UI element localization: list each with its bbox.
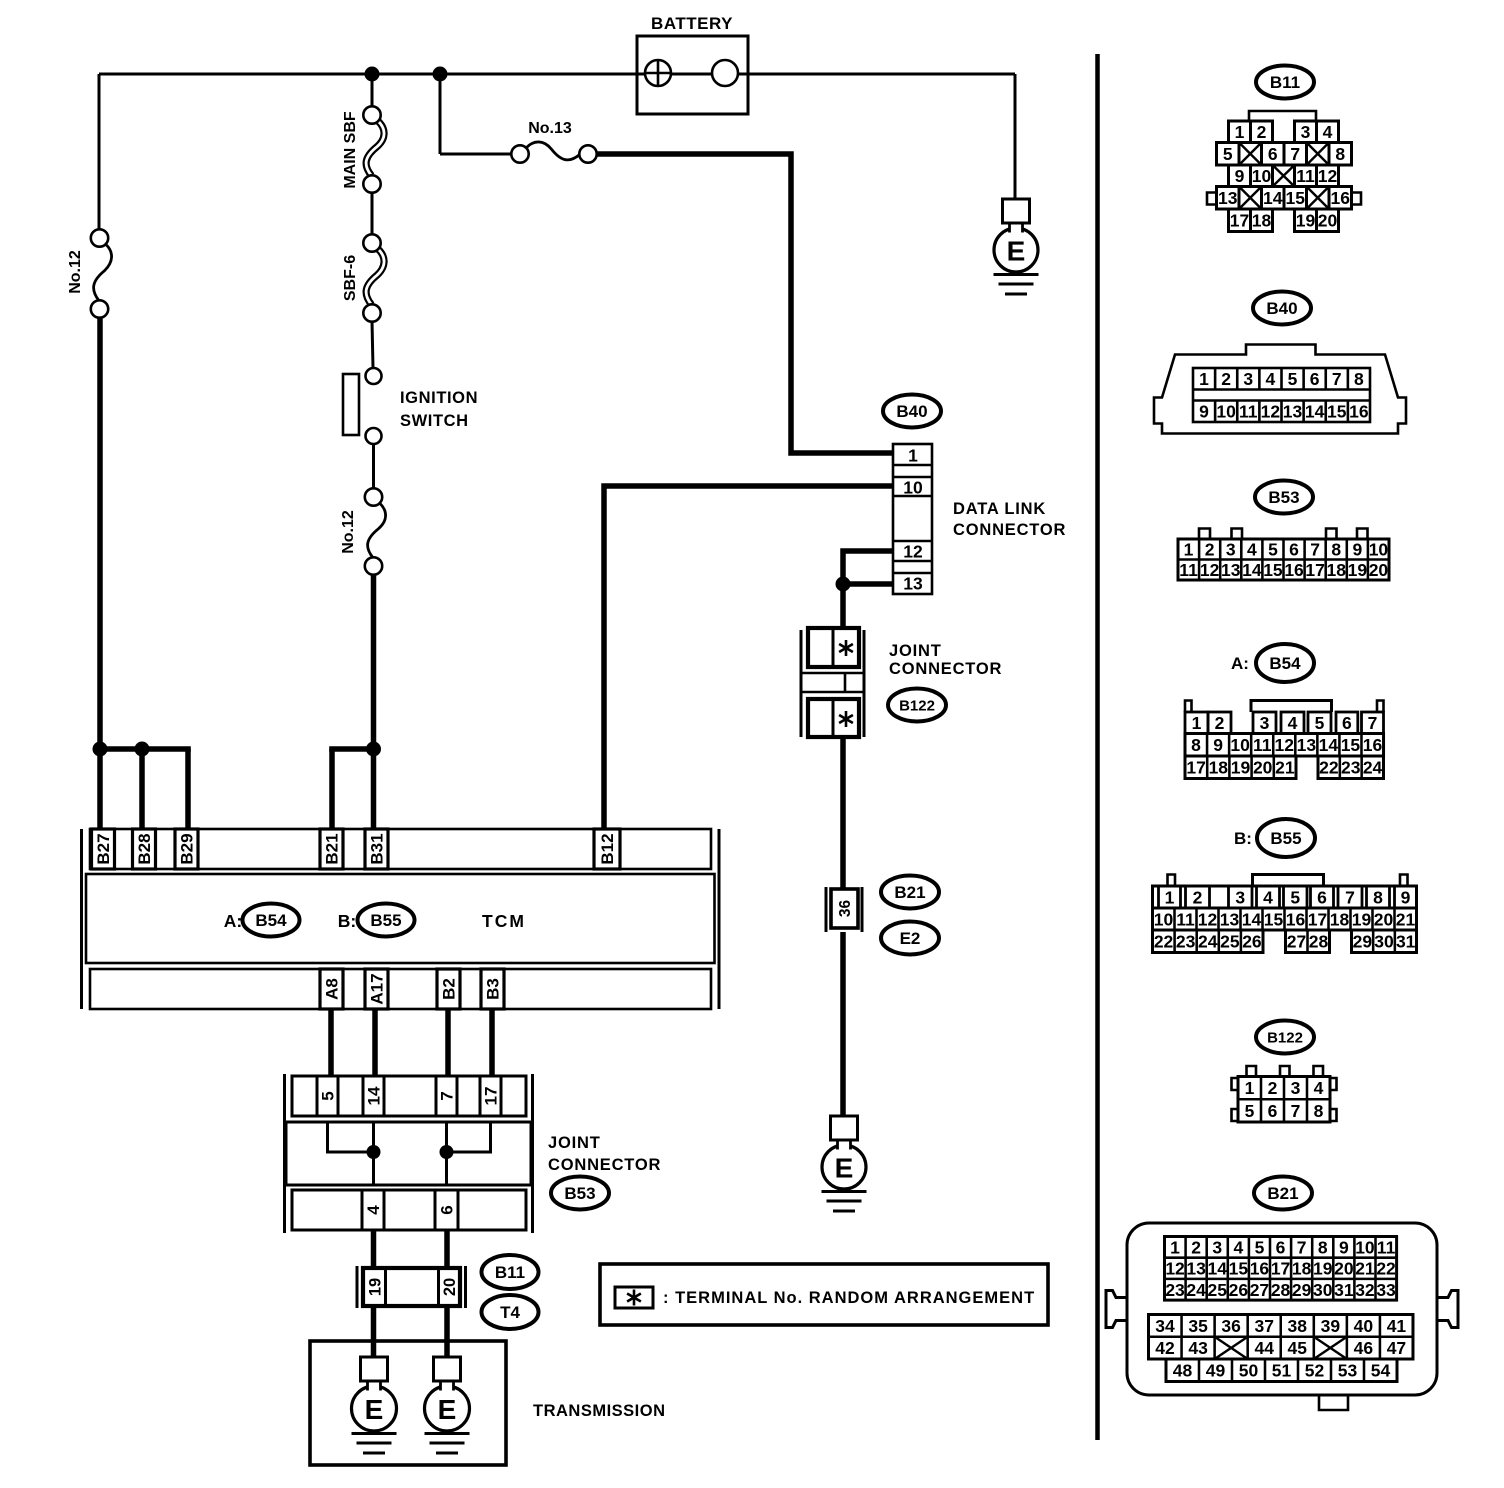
B53 pin 11: [1179, 560, 1198, 580]
joint connector B53 end bar right: [531, 1074, 534, 1233]
B55 pin 10: [1154, 909, 1174, 929]
svg-text:8: 8: [1318, 1237, 1328, 1257]
junction dot pins 12/13: [836, 577, 851, 592]
svg-text:B122: B122: [899, 697, 935, 714]
wire bus branch to fuse No.13: [440, 74, 512, 154]
B53 pin 3: [1226, 540, 1236, 560]
junction dot 5/14: [367, 1145, 381, 1159]
svg-text:20: 20: [441, 1278, 459, 1296]
svg-text:14: 14: [1305, 401, 1325, 421]
wire junction to joint connector B122: [840, 584, 846, 630]
TCM body: [86, 874, 715, 963]
B21 pin 41: [1387, 1316, 1407, 1336]
label No.12 (ignition feed fuse): [340, 510, 357, 554]
svg-text:E: E: [365, 1394, 384, 1425]
B21 pin 34: [1155, 1316, 1175, 1336]
svg-text:4: 4: [1233, 1237, 1243, 1257]
B55 pin 24: [1198, 932, 1218, 952]
svg-text:15: 15: [1327, 401, 1347, 421]
svg-text:T4: T4: [500, 1303, 520, 1322]
svg-text:13: 13: [1186, 1259, 1206, 1279]
svg-text:17: 17: [1305, 560, 1324, 580]
svg-text:B:: B:: [338, 911, 356, 931]
svg-text:34: 34: [1155, 1316, 1175, 1336]
connector B53 oval (pinout): [1255, 481, 1313, 514]
svg-text:40: 40: [1354, 1316, 1374, 1336]
B21 pin 12: [1165, 1259, 1185, 1279]
wire SBF-6 to ignition switch: [372, 321, 373, 368]
svg-text:20: 20: [1369, 560, 1389, 580]
B21 pin 38: [1288, 1316, 1308, 1336]
svg-text:4: 4: [364, 1205, 383, 1215]
B21 grid: [1165, 1237, 1397, 1301]
TCM pin A8: [320, 969, 343, 1009]
B53 pin 8: [1331, 540, 1341, 560]
svg-text:36: 36: [837, 900, 854, 918]
B40 pin 13: [1283, 401, 1303, 421]
connector B55 oval label (TCM B): [358, 904, 415, 937]
svg-text:2: 2: [1257, 122, 1267, 142]
svg-text:14: 14: [1319, 735, 1339, 755]
wire TCM A8 to joint connector pin 5: [328, 1009, 334, 1076]
pin 10 of B40: [903, 477, 923, 497]
svg-text:10: 10: [1216, 401, 1236, 421]
label B: (pinout): [1234, 829, 1252, 848]
B21 pin 54: [1371, 1361, 1391, 1381]
TCM pin B21: [320, 829, 343, 869]
svg-text:7: 7: [438, 1091, 457, 1100]
svg-text:15: 15: [1264, 909, 1284, 929]
internal bus 17-7-6: [447, 1122, 491, 1185]
B122 pin 5: [1245, 1101, 1255, 1121]
svg-text:45: 45: [1288, 1338, 1308, 1358]
svg-text:JOINT: JOINT: [889, 642, 942, 660]
svg-text:41: 41: [1387, 1316, 1407, 1336]
B40 pin 9: [1199, 401, 1209, 421]
svg-text:52: 52: [1305, 1361, 1325, 1381]
svg-text:23: 23: [1165, 1280, 1185, 1300]
svg-text:18: 18: [1292, 1259, 1312, 1279]
label DATA LINK CONNECTOR: [953, 500, 1066, 539]
joint connector pin 4: [362, 1190, 384, 1230]
B54 grid: [1318, 756, 1383, 779]
B53 pin 2: [1205, 540, 1215, 560]
TCM connector end bars left: [80, 829, 83, 1009]
B40 pin 10: [1216, 401, 1236, 421]
B21 pin 17: [1271, 1259, 1290, 1279]
B40 pin 11: [1239, 401, 1258, 421]
wire B40 pin 12 down to joint connector: [843, 551, 893, 584]
svg-text:CONNECTOR: CONNECTOR: [953, 521, 1066, 539]
svg-text:6: 6: [438, 1205, 457, 1214]
svg-text:31: 31: [1334, 1280, 1354, 1300]
svg-text:B:: B:: [1234, 829, 1252, 848]
B54 cell 7: [1362, 712, 1384, 734]
svg-text:CONNECTOR: CONNECTOR: [889, 660, 1002, 678]
svg-text:3: 3: [1260, 713, 1270, 733]
B55 pin 31: [1396, 932, 1416, 952]
svg-text:3: 3: [1235, 887, 1245, 907]
B21 pin 19: [1313, 1259, 1333, 1279]
B55 pin 27: [1287, 932, 1306, 952]
svg-text:20: 20: [1318, 211, 1338, 231]
svg-text:19: 19: [1348, 560, 1368, 580]
svg-text:25: 25: [1220, 932, 1240, 952]
svg-text:53: 53: [1338, 1361, 1358, 1381]
fuse MAIN SBF: [363, 106, 384, 192]
svg-text:B55: B55: [370, 911, 401, 930]
label MAIN SBF: [342, 111, 359, 189]
B40 pin grid: [1193, 368, 1370, 422]
B11 cell X: [1239, 187, 1262, 210]
svg-text:No.12: No.12: [67, 250, 84, 294]
B54 pin 17: [1186, 758, 1205, 778]
B40 pin 12: [1261, 401, 1281, 421]
B55 top bracket: [1253, 875, 1324, 887]
junction dot at B27 feed: [93, 742, 108, 757]
B55 pin 19: [1352, 909, 1372, 929]
label A:: [224, 911, 242, 931]
joint connector pin 7: [436, 1076, 457, 1116]
svg-text:3: 3: [1226, 540, 1236, 560]
svg-text:3: 3: [1301, 122, 1311, 142]
svg-text:14: 14: [365, 1086, 384, 1105]
wire TCM A17 to joint connector pin 14: [372, 1009, 378, 1076]
wire B11 pin 19 to transmission ground: [371, 1306, 377, 1357]
B11 cell 17: [1229, 209, 1251, 232]
svg-text:1: 1: [1192, 713, 1202, 733]
svg-text:21: 21: [1275, 758, 1295, 778]
B40 pin 3: [1243, 369, 1253, 389]
wire pin 6 to B11 pin 20: [444, 1230, 450, 1268]
label JOINT CONNECTOR (B53): [548, 1134, 661, 1174]
svg-text:B28: B28: [135, 833, 154, 864]
label A: (pinout): [1231, 654, 1249, 673]
connector B11 oval (pinout): [1256, 66, 1314, 99]
svg-text:B40: B40: [1266, 299, 1297, 318]
svg-text:15: 15: [1263, 560, 1283, 580]
B11 cell 5: [1217, 143, 1240, 166]
B55 pin 13: [1220, 909, 1240, 929]
B54 pin 9: [1213, 735, 1223, 755]
svg-text:20: 20: [1374, 909, 1394, 929]
B55 pin 9: [1395, 886, 1417, 908]
B11 cell 2: [1251, 121, 1273, 143]
terminal * (upper): [839, 640, 853, 656]
B55 pin 22: [1154, 932, 1174, 952]
battery positive terminal: [645, 60, 671, 86]
B40 pin 15: [1327, 401, 1347, 421]
svg-text:7: 7: [1332, 369, 1342, 389]
B11 cell 18: [1251, 209, 1273, 232]
svg-text:24: 24: [1186, 1280, 1206, 1300]
B55 pin 29: [1353, 932, 1373, 952]
B55 pin 18: [1330, 909, 1350, 929]
B122 pin 1: [1245, 1078, 1255, 1098]
wire ignition switch to fuse No.12: [372, 444, 375, 489]
B11 cell X: [1307, 143, 1330, 166]
svg-text:48: 48: [1173, 1361, 1193, 1381]
wire bus to MAIN SBF: [371, 74, 374, 107]
connector B21 oval (pinout): [1254, 1177, 1312, 1210]
B21 pin 23: [1165, 1280, 1185, 1300]
label SBF-6: [342, 255, 359, 301]
connector B21/E2 terminal 36: [826, 887, 862, 932]
svg-text:17: 17: [482, 1087, 501, 1106]
svg-text:14: 14: [1263, 188, 1283, 208]
svg-text:4: 4: [1266, 369, 1276, 389]
B54 cell 6: [1336, 712, 1358, 734]
svg-text:5: 5: [1315, 713, 1325, 733]
B55 grid: [1153, 908, 1417, 930]
B21 pin 11: [1377, 1237, 1396, 1257]
B122 side tabs: [1232, 1078, 1337, 1121]
wire to pin B29: [185, 749, 191, 829]
svg-text:BATTERY: BATTERY: [651, 14, 733, 33]
connector B11/T4 body: [357, 1266, 466, 1308]
label BATTERY: [651, 14, 733, 33]
B54 pin 10: [1230, 735, 1250, 755]
B21 right tab: [1437, 1291, 1458, 1328]
svg-text:51: 51: [1272, 1361, 1292, 1381]
svg-text:10: 10: [903, 477, 923, 497]
svg-text:DATA LINK: DATA LINK: [953, 500, 1046, 518]
transmission box: [310, 1341, 506, 1465]
B21 pin 28: [1271, 1280, 1291, 1300]
connector B21 oval label (inline): [881, 876, 939, 909]
B11 cell 6: [1262, 143, 1285, 166]
B21 pin 39: [1321, 1316, 1341, 1336]
svg-text:22: 22: [1376, 1259, 1396, 1279]
svg-text:12: 12: [903, 541, 923, 561]
svg-text:13: 13: [1297, 735, 1317, 755]
svg-text:47: 47: [1387, 1338, 1406, 1358]
B21 left tab: [1106, 1291, 1127, 1328]
TCM bottom pin row: [90, 969, 711, 1009]
B53 pin 9: [1352, 540, 1362, 560]
B55 pin 17: [1308, 909, 1327, 929]
data link connector body: [893, 444, 932, 594]
B54 grid: [1185, 734, 1384, 757]
svg-text:B54: B54: [1269, 654, 1301, 673]
fuse No.13: [511, 142, 596, 163]
svg-text:28: 28: [1309, 932, 1329, 952]
TCM connector end bars right: [718, 829, 721, 1009]
B55 pin 28: [1309, 932, 1329, 952]
svg-text:26: 26: [1242, 932, 1262, 952]
B53 pin 12: [1200, 560, 1220, 580]
B55 pin 2: [1186, 886, 1210, 908]
B21 pin 30: [1313, 1280, 1333, 1300]
svg-text:8: 8: [1314, 1101, 1324, 1121]
svg-text:10: 10: [1369, 540, 1389, 560]
B21 pin 31: [1334, 1280, 1354, 1300]
svg-text:E2: E2: [900, 929, 921, 948]
internal bus 5-14-4: [328, 1122, 374, 1185]
svg-text:7: 7: [1291, 1101, 1301, 1121]
svg-text:54: 54: [1371, 1361, 1391, 1381]
TCM pin B29: [175, 829, 198, 869]
B11 top bracket: [1249, 111, 1316, 121]
svg-text:7: 7: [1368, 713, 1378, 733]
B21 pin 10: [1355, 1237, 1375, 1257]
wire TCM B3 to joint connector pin 17: [489, 1009, 495, 1076]
svg-text:CONNECTOR: CONNECTOR: [548, 1156, 661, 1174]
B54 top bracket: [1251, 701, 1332, 713]
svg-text:39: 39: [1321, 1316, 1341, 1336]
B21 pin 16: [1250, 1259, 1270, 1279]
junction dot B31 feed: [366, 742, 381, 757]
B54 pin 14: [1319, 735, 1339, 755]
joint connector B53 top row: [292, 1076, 526, 1116]
svg-text:35: 35: [1188, 1316, 1208, 1336]
svg-text:B11: B11: [495, 1263, 525, 1282]
B40 pin 6: [1310, 369, 1320, 389]
B55 pin 15: [1264, 909, 1284, 929]
svg-text:11: 11: [1179, 560, 1198, 580]
B11 cell 9: [1229, 165, 1251, 187]
B21 pin 42: [1155, 1338, 1175, 1358]
B54 grid: [1185, 756, 1296, 779]
B55 grid: [1352, 930, 1417, 953]
svg-text:B12: B12: [598, 833, 617, 864]
B21 pin 40: [1354, 1316, 1374, 1336]
B54 cell 3: [1253, 712, 1276, 734]
svg-text:2: 2: [1205, 540, 1215, 560]
B21 pin 24: [1186, 1280, 1206, 1300]
B11 cell X: [1273, 165, 1295, 187]
wire left branch down to fuse No.12: [98, 74, 101, 230]
B40 pin 1: [1199, 369, 1209, 389]
svg-text:17: 17: [1271, 1259, 1290, 1279]
svg-text:46: 46: [1354, 1338, 1374, 1358]
B11 cell 15: [1284, 187, 1307, 210]
B122 pin 7: [1291, 1101, 1301, 1121]
joint connector B53 middle body: [286, 1122, 531, 1185]
svg-text:11: 11: [1253, 735, 1272, 755]
svg-text:4: 4: [1288, 713, 1298, 733]
divider line: [1095, 54, 1100, 1440]
svg-text:18: 18: [1209, 758, 1229, 778]
svg-text:26: 26: [1229, 1280, 1249, 1300]
svg-text:18: 18: [1330, 909, 1350, 929]
B55 row1 outer: [1153, 886, 1417, 908]
B21 pin 52: [1305, 1361, 1325, 1381]
TCM pin B12: [594, 829, 620, 869]
wire junction bar to B27/B28/B29: [98, 746, 191, 752]
svg-text:16: 16: [1349, 401, 1369, 421]
B54 pin 15: [1341, 735, 1361, 755]
wire No.12 output down to junction: [97, 317, 103, 829]
B21 pin 7: [1297, 1237, 1307, 1257]
svg-text:30: 30: [1374, 932, 1394, 952]
B53 pin 19: [1348, 560, 1368, 580]
svg-text:20: 20: [1253, 758, 1273, 778]
B55 pin 6: [1311, 886, 1334, 908]
svg-text:15: 15: [1341, 735, 1361, 755]
connector B40 oval label: [883, 395, 941, 428]
fuse No.12 (ignition feed): [365, 488, 386, 574]
connector B122 oval label: [888, 689, 946, 722]
svg-text:19: 19: [1313, 1259, 1333, 1279]
B54 pin 16: [1363, 735, 1383, 755]
B21 crossed cell r2c3: [1215, 1337, 1248, 1359]
svg-text:MAIN SBF: MAIN SBF: [342, 111, 359, 189]
svg-text:3: 3: [1243, 369, 1253, 389]
B54 cell 4: [1281, 712, 1304, 734]
B55 pin 16: [1286, 909, 1306, 929]
svg-text:27: 27: [1250, 1280, 1269, 1300]
svg-text:A:: A:: [1231, 654, 1249, 673]
svg-text:32: 32: [1355, 1280, 1375, 1300]
svg-text:B54: B54: [255, 911, 287, 930]
B122 pin 4: [1314, 1078, 1324, 1098]
svg-text:: TERMINAL No. RANDOM ARRANGEM: : TERMINAL No. RANDOM ARRANGEMENT: [663, 1289, 1035, 1307]
B21 pin 29: [1292, 1280, 1312, 1300]
svg-text:8: 8: [1354, 369, 1364, 389]
B21 pin 6: [1276, 1237, 1286, 1257]
B11 cell 4: [1317, 121, 1339, 143]
joint connector pin 14: [363, 1076, 384, 1116]
svg-text:2: 2: [1193, 887, 1203, 907]
svg-text:20: 20: [1334, 1259, 1354, 1279]
svg-text:13: 13: [1218, 188, 1238, 208]
svg-text:6: 6: [1310, 369, 1320, 389]
svg-text:17: 17: [1230, 211, 1249, 231]
wire B40 pin 13: [843, 581, 893, 587]
TCM pin B3: [481, 969, 504, 1009]
svg-text:1: 1: [1184, 540, 1194, 560]
wire fuse No.13 to data link connector pin 1: [596, 154, 893, 453]
wire pin 4 to B11 pin 19: [371, 1230, 377, 1268]
svg-text:44: 44: [1254, 1338, 1274, 1358]
B21 pin 51: [1272, 1361, 1292, 1381]
svg-text:19: 19: [1296, 211, 1316, 231]
fuse SBF-6: [363, 234, 384, 321]
svg-text:12: 12: [1261, 401, 1281, 421]
svg-text:7: 7: [1345, 887, 1355, 907]
B11 cell 19: [1295, 209, 1317, 232]
svg-text:4: 4: [1314, 1078, 1324, 1098]
B53 pin 5: [1268, 540, 1278, 560]
wire junction bar to B21: [329, 749, 373, 829]
svg-text:9: 9: [1199, 401, 1209, 421]
svg-text:SWITCH: SWITCH: [400, 412, 469, 430]
svg-text:5: 5: [1268, 540, 1278, 560]
terminal * (lower): [839, 711, 853, 727]
svg-text:7: 7: [1297, 1237, 1307, 1257]
svg-text:E: E: [438, 1394, 457, 1425]
svg-text:10: 10: [1230, 735, 1250, 755]
B53 pin 15: [1263, 560, 1283, 580]
B11 cell 11: [1295, 165, 1317, 187]
svg-text:10: 10: [1154, 909, 1174, 929]
B54 pin 13: [1297, 735, 1317, 755]
svg-text:8: 8: [1331, 540, 1341, 560]
connector B122 oval (pinout): [1256, 1021, 1314, 1054]
ground E (battery return): [994, 199, 1039, 294]
wire B122 to connector 36: [840, 737, 846, 889]
B54 corner tabs: [1185, 701, 1384, 713]
B54 pin 18: [1209, 758, 1229, 778]
B54 pin 21: [1275, 758, 1295, 778]
B21 pin 21: [1355, 1259, 1375, 1279]
wire B11 pin 20 to transmission ground: [444, 1306, 450, 1357]
svg-text:B11: B11: [1270, 73, 1300, 92]
svg-text:38: 38: [1288, 1316, 1308, 1336]
B40 pin 5: [1288, 369, 1298, 389]
svg-text:12: 12: [1275, 735, 1295, 755]
